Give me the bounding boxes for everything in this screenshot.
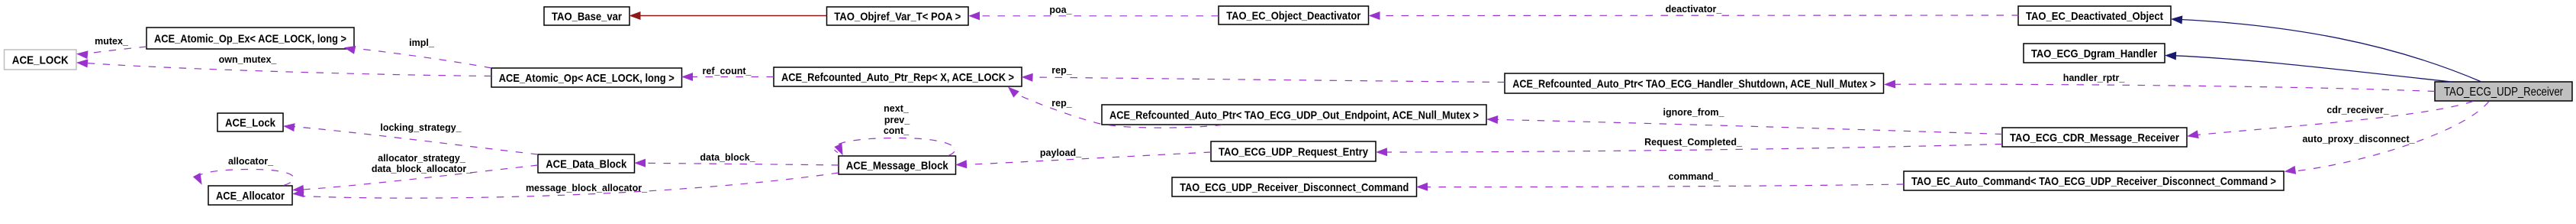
svg-text:ACE_Allocator: ACE_Allocator bbox=[216, 190, 285, 203]
svg-text:TAO_Objref_Var_T< POA >: TAO_Objref_Var_T< POA > bbox=[834, 11, 961, 24]
svg-text:ACE_Refcounted_Auto_Ptr< TAO_E: ACE_Refcounted_Auto_Ptr< TAO_ECG_Handler… bbox=[1512, 78, 1876, 91]
svg-text:deactivator_: deactivator_ bbox=[1666, 4, 1723, 15]
svg-text:data_block_: data_block_ bbox=[700, 152, 755, 163]
svg-text:ACE_Data_Block: ACE_Data_Block bbox=[546, 158, 627, 171]
svg-text:own_mutex_: own_mutex_ bbox=[219, 54, 278, 65]
svg-text:ref_count_: ref_count_ bbox=[703, 66, 752, 76]
svg-text:cdr_receiver_: cdr_receiver_ bbox=[2326, 105, 2389, 115]
svg-text:TAO_Base_var: TAO_Base_var bbox=[552, 11, 622, 24]
svg-text:TAO_ECG_Dgram_Handler: TAO_ECG_Dgram_Handler bbox=[2031, 47, 2157, 60]
svg-text:cont_: cont_ bbox=[884, 125, 910, 136]
svg-text:poa_: poa_ bbox=[1049, 5, 1072, 15]
svg-text:TAO_ECG_CDR_Message_Receiver: TAO_ECG_CDR_Message_Receiver bbox=[2010, 131, 2179, 144]
svg-text:handler_rptr_: handler_rptr_ bbox=[2063, 73, 2126, 83]
svg-text:ACE_Message_Block: ACE_Message_Block bbox=[846, 160, 949, 173]
svg-text:ACE_Refcounted_Auto_Ptr_Rep< X: ACE_Refcounted_Auto_Ptr_Rep< X, ACE_LOCK… bbox=[781, 71, 1014, 84]
svg-text:allocator_strategy_: allocator_strategy_ bbox=[378, 153, 466, 164]
svg-text:rep_: rep_ bbox=[1051, 98, 1072, 109]
svg-text:payload_: payload_ bbox=[1040, 148, 1082, 158]
svg-text:impl_: impl_ bbox=[409, 37, 435, 48]
svg-text:locking_strategy_: locking_strategy_ bbox=[380, 122, 462, 133]
svg-text:Request_Completed_: Request_Completed_ bbox=[1644, 137, 1743, 148]
svg-text:prev_: prev_ bbox=[884, 115, 910, 125]
svg-text:auto_proxy_disconnect_: auto_proxy_disconnect_ bbox=[2302, 134, 2415, 144]
svg-text:rep_: rep_ bbox=[1051, 65, 1072, 76]
svg-text:TAO_ECG_UDP_Receiver_Disconnec: TAO_ECG_UDP_Receiver_Disconnect_Command bbox=[1180, 181, 1409, 194]
svg-text:message_block_allocator_: message_block_allocator_ bbox=[526, 183, 648, 193]
svg-text:TAO_EC_Auto_Command< TAO_ECG_U: TAO_EC_Auto_Command< TAO_ECG_UDP_Receive… bbox=[1911, 175, 2276, 188]
svg-text:mutex_: mutex_ bbox=[95, 36, 129, 47]
svg-text:ignore_from_: ignore_from_ bbox=[1663, 107, 1725, 118]
svg-text:next_: next_ bbox=[884, 103, 910, 114]
svg-text:ACE_Atomic_Op< ACE_LOCK, long: ACE_Atomic_Op< ACE_LOCK, long > bbox=[499, 72, 675, 85]
svg-text:TAO_EC_Deactivated_Object: TAO_EC_Deactivated_Object bbox=[2026, 10, 2163, 23]
svg-text:command_: command_ bbox=[1669, 171, 1720, 182]
svg-text:TAO_ECG_UDP_Request_Entry: TAO_ECG_UDP_Request_Entry bbox=[1219, 146, 1369, 159]
svg-text:ACE_LOCK: ACE_LOCK bbox=[12, 54, 69, 67]
svg-text:ACE_Lock: ACE_Lock bbox=[225, 117, 276, 130]
svg-text:allocator_: allocator_ bbox=[228, 156, 274, 167]
svg-text:data_block_allocator_: data_block_allocator_ bbox=[372, 164, 472, 174]
svg-text:ACE_Refcounted_Auto_Ptr< TAO_E: ACE_Refcounted_Auto_Ptr< TAO_ECG_UDP_Out… bbox=[1109, 109, 1479, 122]
svg-text:ACE_Atomic_Op_Ex< ACE_LOCK, lo: ACE_Atomic_Op_Ex< ACE_LOCK, long > bbox=[154, 33, 346, 46]
svg-text:TAO_ECG_UDP_Receiver: TAO_ECG_UDP_Receiver bbox=[2444, 86, 2564, 99]
svg-text:TAO_EC_Object_Deactivator: TAO_EC_Object_Deactivator bbox=[1226, 10, 1360, 23]
